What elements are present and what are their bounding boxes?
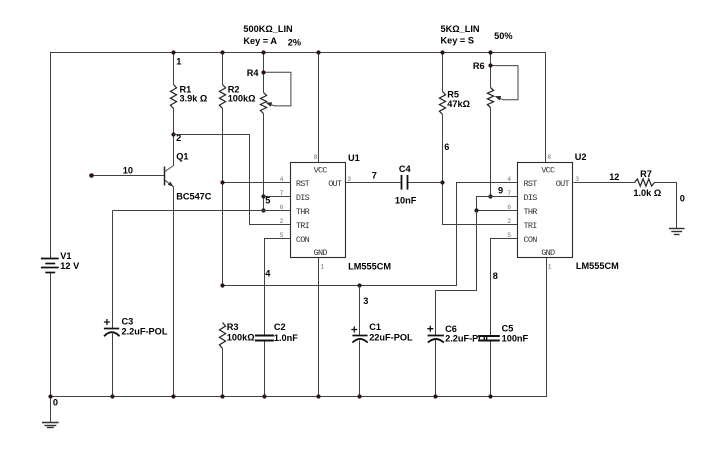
svg-text:GND: GND (314, 248, 328, 258)
wire R7 to ground symbol (655, 183, 677, 229)
wire C6 to ground (435, 340, 437, 397)
svg-text:3: 3 (363, 296, 368, 306)
wire net5 to U1 THR (113, 210, 291, 212)
resistor R1 (170, 85, 176, 109)
svg-text:U2: U2 (575, 152, 587, 162)
svg-text:7: 7 (372, 171, 377, 181)
junction net5 / THR U1 (262, 209, 265, 212)
resistor R3 (219, 323, 225, 349)
junction ground / C3 (111, 395, 114, 398)
wire net9 jog to THR (477, 197, 491, 211)
svg-text:2.2uF-POL: 2.2uF-POL (122, 326, 168, 336)
junction V+ / R2 (221, 51, 224, 54)
svg-text:DIS: DIS (524, 193, 538, 203)
junction ground / U1 GND (317, 395, 320, 398)
junction R6 wiper loop (489, 64, 492, 67)
svg-text:12: 12 (609, 172, 619, 182)
wire net9 to U2 THR (477, 210, 518, 212)
svg-text:RST: RST (296, 179, 310, 189)
svg-text:GND: GND (541, 248, 555, 258)
resistor R7 (635, 179, 655, 186)
junction ground / battery (49, 395, 52, 398)
junction V+ / R4 (262, 51, 265, 54)
wire R2 bottom through RST node to R3 top (222, 109, 224, 286)
junction net3 / U1 RST (221, 181, 224, 184)
wire net5 down to C3 (112, 211, 114, 329)
U2 pin numbers (507, 154, 579, 271)
wire U1 GND to ground rail (318, 258, 320, 397)
wire C3 to ground (112, 334, 114, 397)
wire node2 to Q1 collector (173, 135, 175, 166)
svg-text:Key = S: Key = S (441, 36, 474, 46)
svg-text:10nF: 10nF (395, 195, 417, 205)
svg-text:0: 0 (680, 193, 685, 203)
resistor R2 (219, 85, 225, 109)
wire net3 R2/R3 junction to U2 RST (223, 183, 518, 286)
junction ground / C2 (263, 395, 266, 398)
junction R4 wiper loop (262, 71, 265, 74)
svg-text:22uF-POL: 22uF-POL (369, 333, 413, 343)
junction node 2 (172, 133, 175, 136)
svg-text:2%: 2% (288, 37, 301, 47)
wire net3 to C1 (359, 286, 361, 336)
transistor Q1 BC547C (165, 165, 175, 187)
capacitor C2 1.0nF (255, 336, 274, 341)
wire R6 bottom to net 9 (490, 108, 492, 197)
svg-text:THR: THR (296, 207, 310, 217)
potentiometer R4 500K LIN (260, 93, 266, 114)
svg-text:THR: THR (524, 207, 538, 217)
junction V+ / R5 (441, 51, 444, 54)
ground symbol (left) (42, 397, 59, 428)
wire U1 OUT to C4 (346, 182, 402, 184)
svg-text:R7: R7 (640, 169, 652, 179)
svg-text:R3: R3 (227, 322, 239, 332)
svg-text:C6: C6 (445, 324, 457, 334)
wire U2 CON to C5 (491, 239, 518, 337)
svg-text:C2: C2 (274, 322, 286, 332)
svg-text:BC547C: BC547C (176, 191, 212, 201)
wire node2 to U1 TRI (174, 135, 291, 225)
svg-text:CON: CON (524, 235, 538, 245)
svg-text:U1: U1 (348, 153, 360, 163)
wire R4 bottom to DIS/THR net 5 (263, 114, 265, 211)
svg-text:TRI: TRI (296, 221, 310, 231)
svg-text:VCC: VCC (314, 165, 328, 175)
wire net9 to U2 DIS (491, 196, 518, 198)
wire V+ to R6 top (490, 53, 492, 88)
svg-text:100kΩ: 100kΩ (228, 94, 256, 104)
wire V+ rail (battery top to U2 VCC) (51, 53, 546, 259)
svg-text:Q1: Q1 (176, 152, 188, 162)
svg-text:1.0k Ω: 1.0k Ω (633, 188, 661, 198)
svg-text:TRI: TRI (524, 221, 538, 231)
svg-text:2.2uF-POL: 2.2uF-POL (445, 333, 491, 343)
junction V+ / R1 (172, 51, 175, 54)
svg-text:100kΩ: 100kΩ (227, 332, 255, 342)
svg-text:OUT: OUT (556, 179, 570, 189)
wire R1 bottom to node 2 (173, 109, 175, 135)
U1 pin names (296, 165, 342, 258)
junction V+ / U1 VCC (317, 51, 320, 54)
wire U2 OUT to R7 (574, 182, 635, 184)
svg-text:10: 10 (123, 165, 133, 175)
U1 pin numbers (280, 154, 352, 271)
junction ground / R3 (221, 395, 224, 398)
junction net9 / DIS U2 (489, 195, 492, 198)
svg-text:CON: CON (296, 235, 310, 245)
junction ground / C5 (489, 395, 492, 398)
junction ground / Q1 emitter (172, 395, 175, 398)
svg-text:3: 3 (347, 176, 351, 183)
battery V1 12V (41, 259, 59, 273)
capacitor C1 22uF-POL (351, 327, 367, 343)
op-amp U1 LM555CM box (291, 163, 346, 258)
op-amp U2 LM555CM box (518, 163, 573, 258)
svg-text:1.0nF: 1.0nF (274, 333, 298, 343)
svg-text:47kΩ: 47kΩ (447, 99, 470, 109)
node 10 terminal (90, 174, 94, 178)
svg-text:C3: C3 (122, 316, 134, 326)
wire C4 to net 6 (409, 182, 443, 184)
svg-text:Key = A: Key = A (243, 36, 277, 46)
junction net6 C4/R5/TRI (441, 181, 444, 184)
svg-text:1: 1 (176, 56, 181, 66)
svg-text:R4: R4 (247, 68, 260, 78)
wire R3 bottom to ground (222, 349, 224, 397)
svg-text:12 V: 12 V (60, 261, 80, 271)
svg-text:100nF: 100nF (502, 333, 529, 343)
svg-text:OUT: OUT (328, 179, 342, 189)
svg-text:9: 9 (498, 186, 503, 196)
junction net3 / R3 top (221, 284, 224, 287)
svg-text:0: 0 (53, 397, 58, 407)
wire V+ to R4 top (263, 53, 265, 93)
capacitor C5 100nF (478, 336, 500, 341)
junction net3 / C1 (358, 284, 361, 287)
capacitor C3 2.2uF-POL (104, 319, 120, 336)
svg-text:500KΩ_LIN: 500KΩ_LIN (243, 24, 293, 34)
wire net3 to U1 RST (223, 182, 291, 184)
wire V+ to R5 top (442, 53, 444, 92)
wire node 10 to Q1 base (92, 175, 165, 177)
svg-text:R6: R6 (473, 61, 485, 71)
resistor R5 (439, 92, 445, 115)
junction V+ / R6 (489, 51, 492, 54)
potentiometer R6 5K LIN (487, 88, 493, 108)
svg-text:4: 4 (265, 269, 271, 279)
capacitor C6 2.2uF-POL (427, 326, 444, 343)
wire R5 bottom through net6 to U2 TRI (443, 115, 518, 225)
svg-text:VCC: VCC (541, 165, 555, 175)
svg-text:RST: RST (524, 179, 538, 189)
ground symbol (right) (669, 229, 685, 235)
wire net9 down to C6 (436, 211, 477, 336)
svg-text:LM555CM: LM555CM (576, 261, 619, 271)
wire battery negative to ground rail (50, 273, 52, 397)
wire C2 to ground (264, 342, 266, 397)
svg-text:6: 6 (444, 142, 449, 152)
wire ground rail (to U2 GND) (51, 258, 547, 397)
svg-text:LM555CM: LM555CM (348, 262, 391, 272)
svg-text:C5: C5 (502, 324, 514, 334)
wire V+ to R1 top (173, 53, 175, 85)
wire V+ to R2 top (222, 53, 224, 85)
capacitor C4 10nF (402, 175, 408, 190)
svg-text:1: 1 (548, 264, 552, 271)
svg-text:8: 8 (493, 271, 498, 281)
svg-text:C4: C4 (399, 164, 412, 174)
wire C5 to ground (490, 342, 492, 397)
wire U1 CON to C2 (265, 239, 291, 335)
junction net5 / DIS U1 (262, 195, 265, 198)
junction ground / C1 (358, 395, 361, 398)
junction ground / C6 (434, 395, 437, 398)
wire V+ to U1 VCC (318, 53, 320, 163)
U2 pin names (524, 165, 570, 258)
junction net9 / THR U2 (475, 209, 478, 212)
svg-text:3.9k Ω: 3.9k Ω (180, 94, 208, 104)
svg-text:5KΩ_LIN: 5KΩ_LIN (441, 24, 480, 34)
svg-text:DIS: DIS (296, 193, 310, 203)
svg-text:C1: C1 (369, 322, 381, 332)
svg-text:V1: V1 (60, 251, 71, 261)
wire C1 to ground (359, 341, 361, 397)
wire net5 to U1 DIS (264, 196, 291, 198)
svg-text:50%: 50% (494, 31, 512, 41)
wire Q1 emitter to ground (173, 188, 175, 397)
